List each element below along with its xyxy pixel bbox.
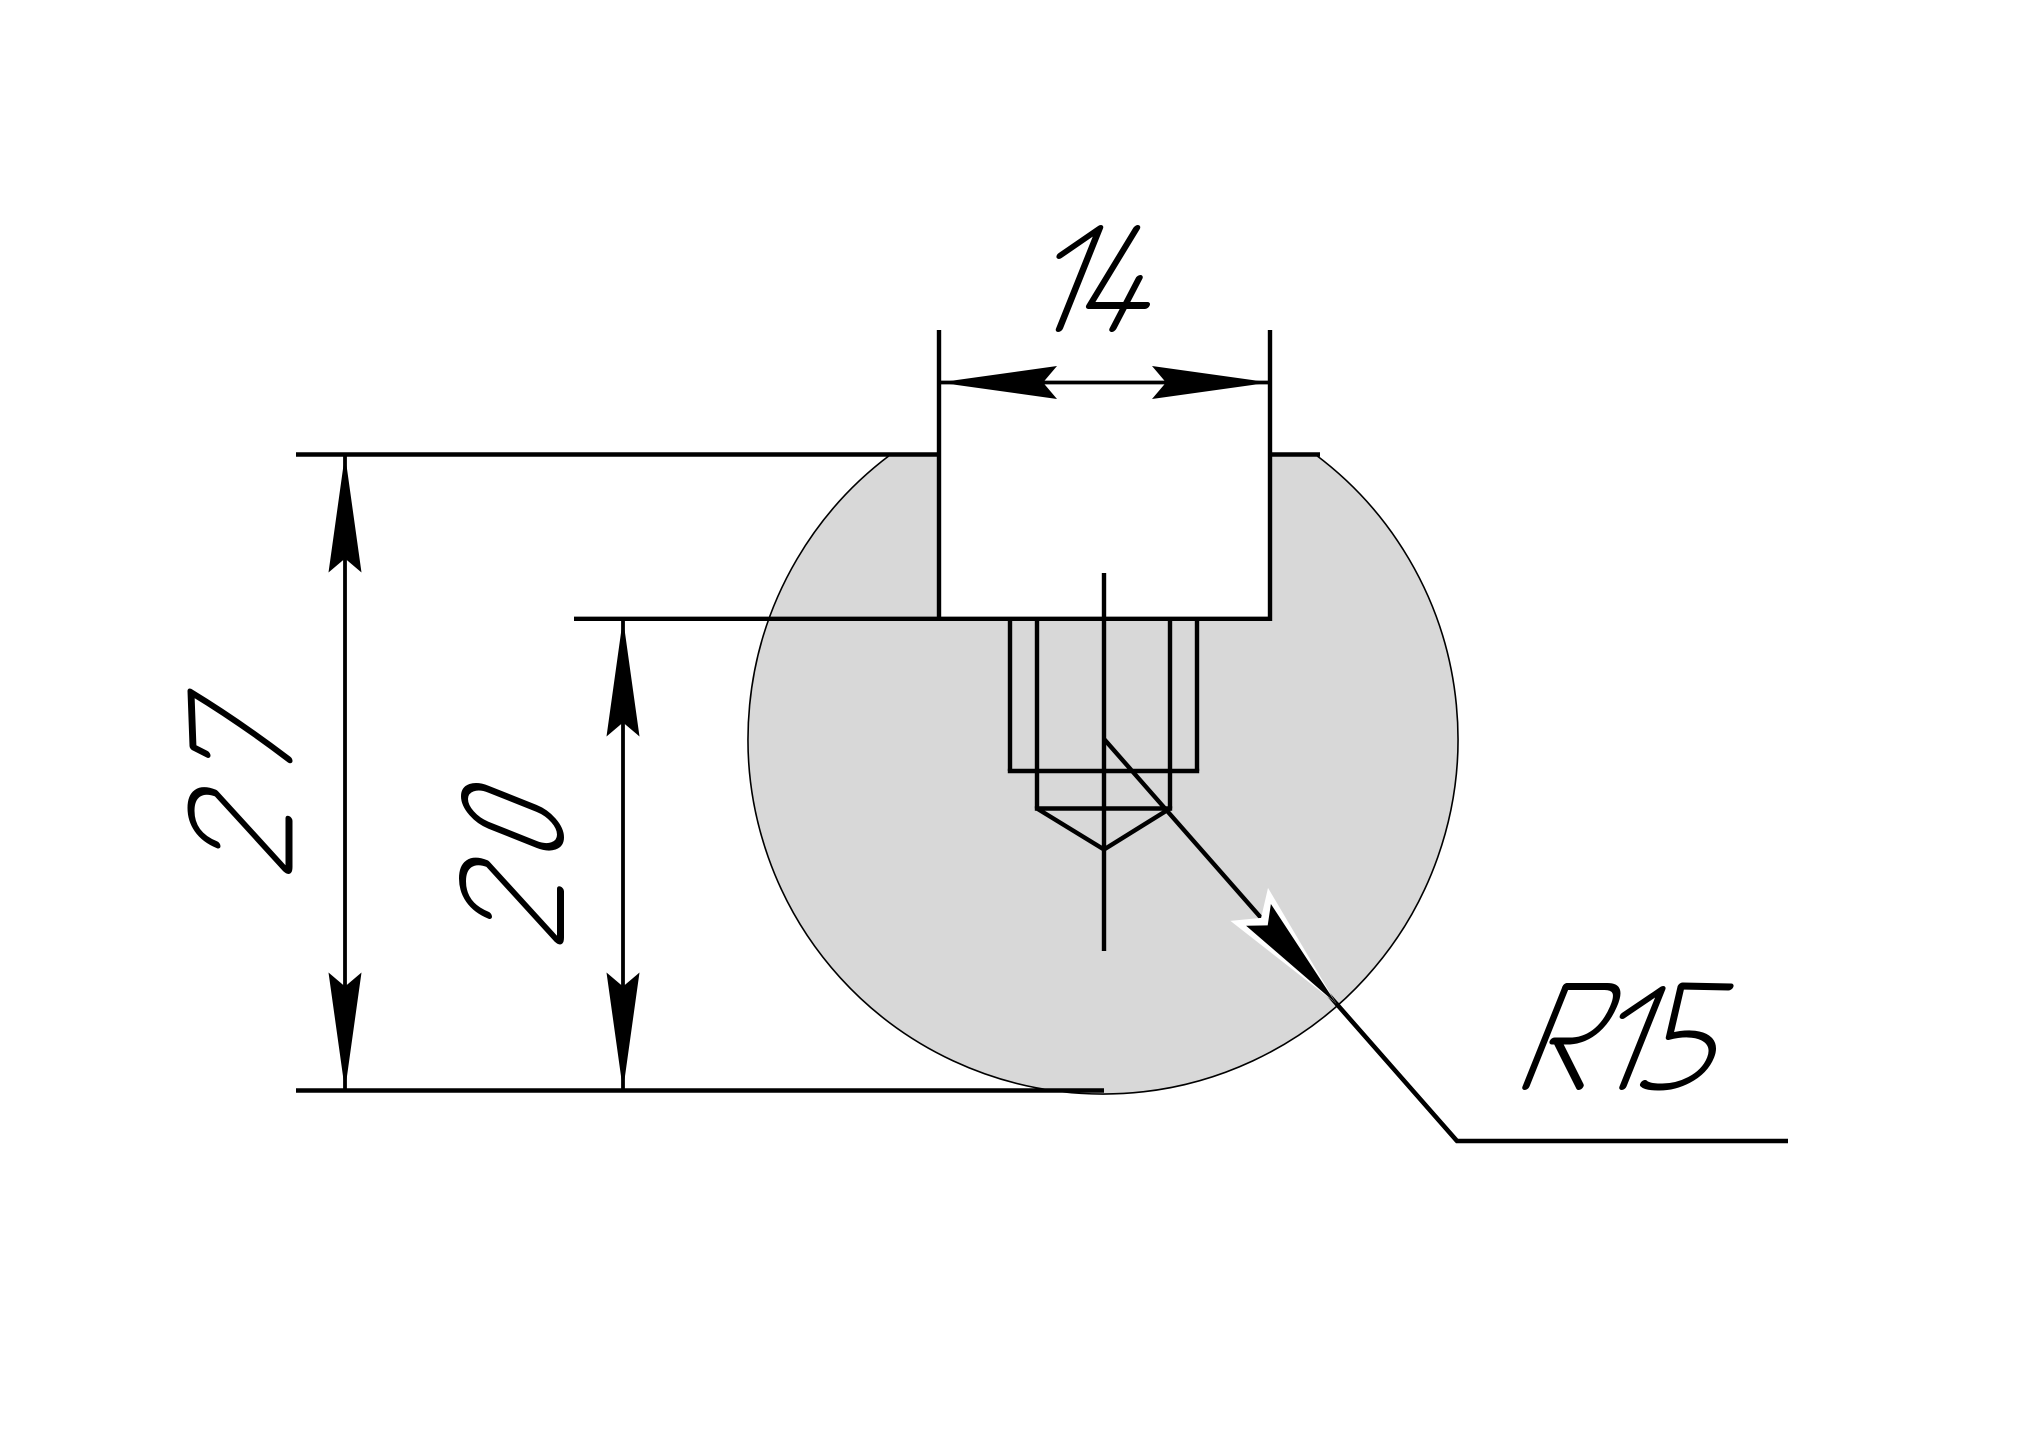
- arrow 20 top: [607, 619, 640, 737]
- leader arrowhead: [1246, 904, 1336, 1004]
- flat top line left (27 extension): [296, 452, 941, 456]
- drill cone right: [1104, 809, 1170, 850]
- text 20 (rotated): [463, 779, 561, 944]
- arrows: [329, 366, 1271, 1091]
- text 27 (rotated): [191, 692, 289, 873]
- contour + extension lines: [296, 330, 1320, 1091]
- text R15: [1526, 986, 1739, 1087]
- leader line front segment: [1336, 1004, 1457, 1141]
- notch left edge / 14 extension: [937, 330, 941, 621]
- drill hole left: [1035, 619, 1039, 809]
- leader line R15: [1104, 739, 1788, 1141]
- leader arrow halo: [1230, 888, 1336, 1004]
- arrow 27 top: [329, 455, 362, 573]
- arrow 14 right: [1152, 366, 1270, 399]
- thread hole bottom: [1008, 769, 1199, 773]
- flat top line right: [1268, 452, 1320, 456]
- dimension lines: [345, 383, 1270, 1091]
- thread hole outer left: [1008, 619, 1012, 771]
- drill hole bottom: [1035, 806, 1172, 810]
- arrow 20 bottom: [607, 973, 640, 1091]
- arrow 14 left: [939, 366, 1057, 399]
- bottom extension line (27/20): [296, 1088, 1104, 1092]
- text 14: [1031, 229, 1177, 329]
- notch right edge / 14 extension: [1268, 330, 1272, 621]
- drill hole right: [1168, 619, 1172, 809]
- white notch rectangle: [939, 445, 1270, 619]
- drill cone left: [1037, 809, 1104, 850]
- notch bottom + 20 extension: [574, 617, 1272, 621]
- gray body: circle R355 with flat top cut at y=454.5: [748, 455, 1458, 1095]
- dim line 27: [343, 455, 347, 1091]
- thread hole outer right: [1195, 619, 1199, 771]
- arrow 27 bottom: [329, 973, 362, 1091]
- dim line 14: [939, 381, 1270, 385]
- centerline: [1102, 573, 1106, 951]
- dim line 20: [621, 619, 625, 1091]
